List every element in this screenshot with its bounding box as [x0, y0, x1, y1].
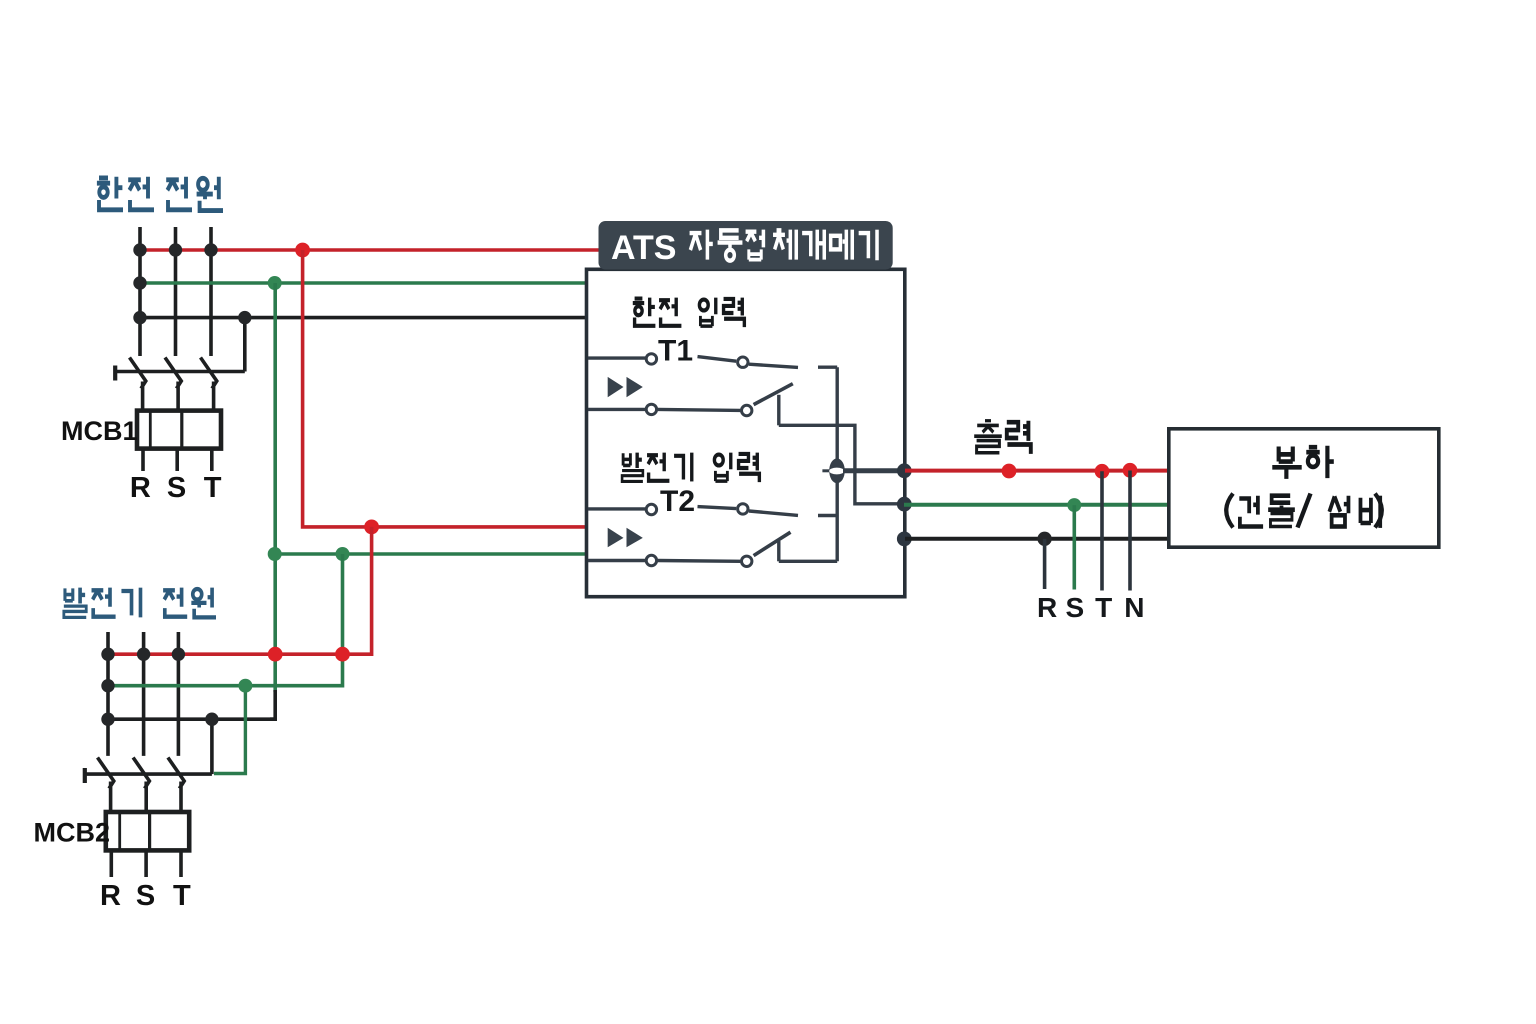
icon: fast-transfer arrows (bottom): [608, 528, 624, 548]
svg-text:T: T: [204, 472, 222, 504]
breaker MCB2: [85, 758, 212, 813]
T1 lower pivot circle: [742, 405, 752, 415]
T2 lower input wire: [588, 559, 645, 562]
T1 top linkage stub: [818, 366, 837, 369]
T1 fixed contact line: [749, 364, 798, 367]
wire: red R-phase vertical drop and feed to ATS T2 red input: [303, 250, 587, 527]
wire: output green S phase: [904, 503, 1169, 507]
svg-text:T: T: [173, 880, 191, 912]
node: green dot on output green wire: [1067, 498, 1081, 512]
MCB1 linkage bar: [115, 370, 245, 374]
label: 한전 입력 (KEPCO input): [633, 298, 745, 327]
label: generator source 발전기 전원: [64, 588, 216, 618]
icon: fast-transfer arrows (top): [608, 377, 624, 397]
wire: output tap vertical R: [1043, 539, 1047, 589]
svg-text:S: S: [1065, 592, 1084, 623]
wire: KEPCO green S-phase bus: [140, 281, 587, 285]
T1 wire to moving contact: [698, 357, 737, 362]
node: red tap dot on KEPCO red bus: [295, 243, 310, 258]
T1 lower left contact circle: [646, 404, 656, 414]
T1 upper input wire: [588, 356, 645, 359]
T1 switch blade: [754, 384, 793, 405]
label: 발전기 입력 (generator input): [622, 453, 759, 482]
node: red dots on output red wire: [1002, 464, 1017, 479]
wire: generator green bus up to T2 green feed: [108, 554, 343, 686]
T2 moving contact circle: [738, 504, 748, 514]
T2 upper contact circle: [646, 504, 656, 514]
wire: T1 output to green output node: [779, 425, 903, 504]
MCB1 handle tick: [113, 366, 117, 381]
MCB2 linkage bar: [85, 772, 212, 776]
wire: KEPCO black T-phase bus: [140, 316, 587, 320]
load box 부하: [1169, 429, 1439, 547]
wire: T2 output to main linkage bottom: [779, 560, 837, 563]
MCB1 body dividers: [149, 411, 152, 449]
svg-text:ATS: ATS: [611, 229, 676, 267]
node: green junction dot on generator green bus: [238, 679, 252, 693]
ATS main linkage vertical: [836, 367, 839, 561]
label: 츨력 (output): [974, 421, 1031, 454]
T2 lower left contact circle: [646, 555, 656, 565]
T2 top linkage stub: [818, 514, 837, 517]
junction dots on generator buses: [101, 648, 218, 726]
MCB2 body box: [106, 812, 189, 850]
T2 blade link vertical: [777, 541, 780, 561]
node: red crossing dots on generator red bus: [268, 647, 283, 662]
T1 lower wire: [658, 409, 741, 410]
node: black dot on output black wire: [1037, 532, 1051, 546]
wire: green feed to ATS T2 green input: [275, 552, 587, 556]
wire: green S-phase vertical drop (KEPCO to T2 row, turns black at bottom): [273, 283, 277, 692]
wire: generator phase bus verticals R S T: [108, 632, 178, 756]
MCB1 output stubs: [143, 449, 212, 471]
MCB1 pole 3 blade: [201, 358, 217, 411]
svg-text:R: R: [100, 880, 121, 912]
T1 lower input wire: [588, 408, 645, 411]
wire: pivot output (thick): [843, 468, 903, 473]
label: (건돌 / 섬비): [1226, 494, 1233, 528]
svg-text:R: R: [130, 472, 151, 504]
svg-text:R: R: [1037, 592, 1057, 623]
svg-text:T: T: [1095, 592, 1112, 623]
wire: output tap vertical S (green): [1073, 505, 1077, 589]
node: green junctions on T2 green feed: [268, 547, 282, 561]
T2 upper input wire: [588, 507, 645, 510]
MCB1 pole 1 blade: [130, 358, 146, 411]
T1 moving contact circle: [738, 357, 748, 367]
T2 lower wire: [658, 559, 741, 563]
T2 wire to moving contact: [698, 507, 737, 509]
T2 switch blade: [754, 532, 791, 555]
svg-text:S: S: [136, 880, 155, 912]
svg-text:T2: T2: [660, 485, 695, 518]
T1 upper contact circle: [646, 354, 656, 364]
svg-text:N: N: [1124, 592, 1144, 623]
node: output dots on ATS right edge: [897, 463, 912, 478]
ATS title bar: [599, 221, 893, 270]
MCB2 output stubs: [111, 850, 181, 877]
MCB2 body dividers: [118, 812, 121, 850]
MCB2 pole 2 blade: [133, 758, 149, 813]
wire: output red R phase: [905, 469, 1169, 473]
MCB2 pole 1 blade: [98, 758, 114, 813]
node: red junction on T2 feed: [364, 520, 379, 535]
wire: T-phase drop to MCB1 bar: [243, 318, 247, 372]
MCB1 body box: [137, 411, 221, 449]
T2 lower pivot circle: [742, 556, 752, 566]
label: 부하 (load): [1272, 446, 1334, 479]
wire: output black T phase: [905, 537, 1169, 541]
wire: green branch down to MCB2 bar: [214, 686, 245, 774]
svg-text:MCB1: MCB1: [61, 416, 138, 446]
ATS pivot left tick: [822, 469, 829, 472]
T1 blade link vertical: [777, 395, 780, 426]
ATS enclosure box: [587, 269, 905, 596]
node: green tap dot on KEPCO green bus: [268, 276, 282, 290]
wire: output tap vertical T: [1100, 471, 1104, 590]
wire: generator red bus up to T2 feed junction: [108, 527, 372, 654]
MCB1 pole 2 blade: [165, 358, 181, 411]
svg-text:MCB2: MCB2: [34, 818, 111, 848]
MCB2 pole 3 blade: [168, 758, 184, 813]
wire: KEPCO red R-phase bus: [140, 248, 600, 252]
wire: generator black T bus: [108, 717, 275, 721]
ATS transfer pivot ellipse: [829, 458, 845, 483]
T2 fixed contact line: [749, 511, 798, 515]
wire: KEPCO phase bus verticals R S T: [140, 227, 211, 356]
breaker MCB1: [115, 358, 245, 411]
svg-text:S: S: [167, 472, 186, 504]
MCB2 handle tick: [83, 768, 87, 783]
junction dots on KEPCO buses: [133, 243, 251, 324]
label: KEPCO source 한전 전원: [97, 177, 223, 211]
wire: output tap vertical N: [1128, 471, 1132, 591]
svg-text:T1: T1: [658, 335, 693, 368]
wire: T-phase drop to MCB2 bar: [210, 719, 214, 774]
